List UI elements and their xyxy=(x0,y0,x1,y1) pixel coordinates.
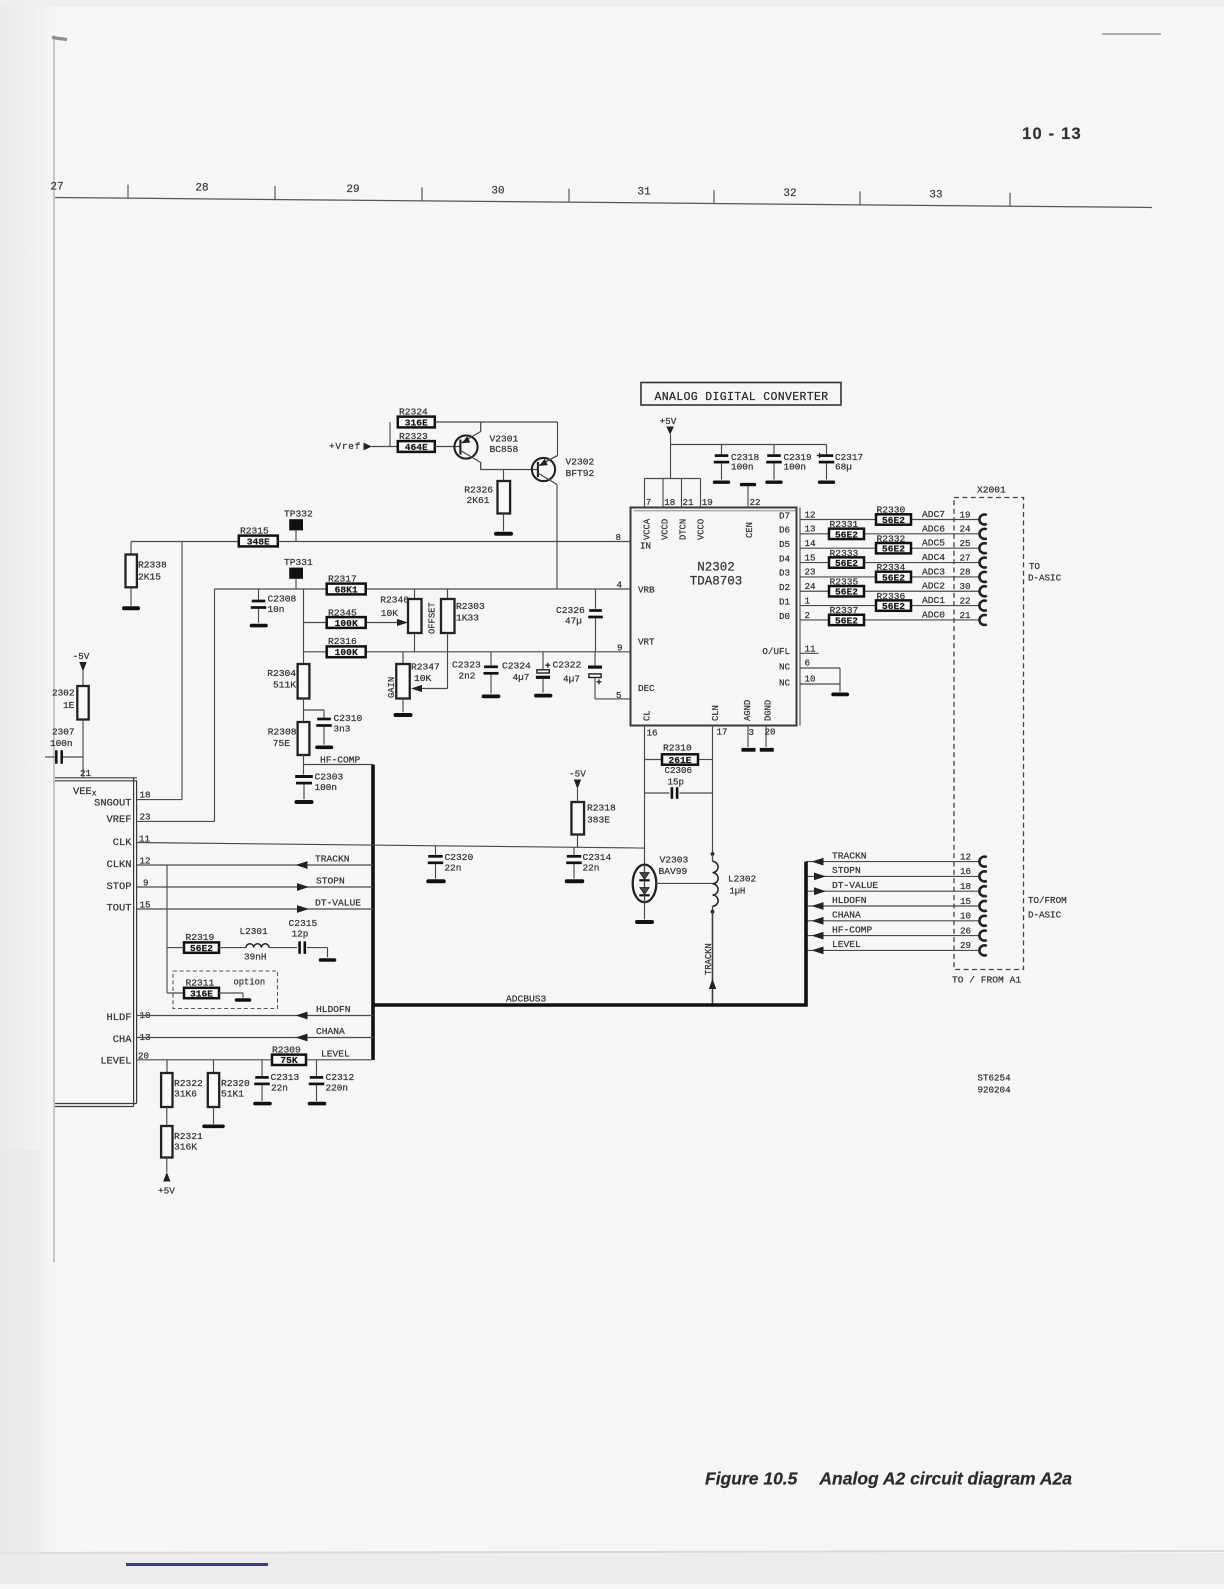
svg-text:TDA8703: TDA8703 xyxy=(690,575,743,589)
svg-text:R2303: R2303 xyxy=(456,601,485,612)
resistor R2321 316K xyxy=(161,1107,203,1158)
resistor R2332 56E2 xyxy=(876,533,911,554)
svg-text:VRT: VRT xyxy=(638,637,655,648)
resistor R2310 261E xyxy=(645,743,713,766)
ruler scale 27-33 xyxy=(50,181,1152,207)
svg-text:option: option xyxy=(234,978,266,988)
wire: HF-COMP node xyxy=(304,755,374,775)
svg-text:464E: 464E xyxy=(405,442,428,453)
svg-text:ADCBUS3: ADCBUS3 xyxy=(506,994,547,1005)
wire: data line D5 to connector xyxy=(800,547,980,549)
wire: TRACKN riser to bus xyxy=(712,912,714,1004)
svg-text:39nH: 39nH xyxy=(244,952,267,963)
svg-text:+Vref: +Vref xyxy=(329,441,361,452)
svg-text:CLN: CLN xyxy=(711,705,721,721)
connector contact DT-VALUE xyxy=(979,886,986,896)
svg-text:1K33: 1K33 xyxy=(456,613,479,624)
svg-text:18: 18 xyxy=(664,497,675,508)
svg-text:ADC0: ADC0 xyxy=(922,609,945,620)
svg-text:21: 21 xyxy=(960,610,972,621)
svg-text:15: 15 xyxy=(960,896,971,907)
svg-text:10: 10 xyxy=(805,674,816,685)
test point TP331 xyxy=(284,557,313,589)
svg-text:16: 16 xyxy=(647,728,658,739)
svg-text:D6: D6 xyxy=(779,525,790,536)
connector contact TRACKN xyxy=(979,857,986,867)
svg-text:7: 7 xyxy=(646,497,652,508)
svg-text:O/UFL: O/UFL xyxy=(762,646,790,657)
potentiometer R2346 10K (OFFSET) xyxy=(380,589,421,652)
wire: data line D4 to connector xyxy=(800,562,980,564)
svg-text:V2301: V2301 xyxy=(490,434,519,445)
svg-text:28: 28 xyxy=(960,567,971,578)
svg-text:ANALOG DIGITAL CONVERTER: ANALOG DIGITAL CONVERTER xyxy=(654,391,828,404)
svg-text:920204: 920204 xyxy=(978,1085,1012,1096)
test point TP332 xyxy=(284,509,313,542)
svg-text:15: 15 xyxy=(805,552,816,563)
wire: CHA pin13 xyxy=(137,1037,373,1039)
capacitor C2312 220n xyxy=(309,1060,355,1104)
svg-text:1E: 1E xyxy=(63,700,75,711)
svg-text:30: 30 xyxy=(491,185,504,197)
wire: V2301 collector to V2302 base xyxy=(504,469,538,471)
svg-text:ST6254: ST6254 xyxy=(978,1073,1012,1084)
svg-text:TP331: TP331 xyxy=(284,557,313,568)
resistor R2336 56E2 xyxy=(876,591,911,612)
resistor R2311 316E (option) xyxy=(167,978,250,1001)
wire: HF-COMP row to connector xyxy=(806,935,980,937)
svg-text:C2326: C2326 xyxy=(556,605,585,616)
svg-text:R2318: R2318 xyxy=(587,803,616,814)
svg-text:BC858: BC858 xyxy=(490,444,519,455)
svg-text:2K15: 2K15 xyxy=(138,572,161,583)
svg-text:20: 20 xyxy=(765,727,776,738)
svg-text:C2313: C2313 xyxy=(271,1072,300,1083)
label V2302 BFT92 xyxy=(566,457,595,480)
svg-text:29: 29 xyxy=(960,940,971,951)
svg-text:2n2: 2n2 xyxy=(459,671,476,682)
svg-text:10: 10 xyxy=(960,911,971,922)
ground (NC pins) xyxy=(833,668,847,694)
wire: VCC comb pins 7/18/21/19 xyxy=(645,479,701,508)
signal arrow LEVEL xyxy=(812,947,824,955)
capacitor C2322 4µ7 xyxy=(553,652,603,699)
svg-text:2302: 2302 xyxy=(52,688,75,699)
svg-text:D2: D2 xyxy=(779,582,790,593)
svg-text:3n3: 3n3 xyxy=(334,724,351,735)
svg-text:30: 30 xyxy=(960,581,971,592)
svg-text:18: 18 xyxy=(960,881,971,892)
svg-text:22: 22 xyxy=(750,497,761,508)
svg-text:CLKN: CLKN xyxy=(107,859,132,871)
svg-text:220n: 220n xyxy=(326,1083,349,1094)
wire: TRACKN row to connector xyxy=(806,861,980,863)
svg-text:56E2: 56E2 xyxy=(190,943,213,954)
svg-text:56E2: 56E2 xyxy=(882,544,905,555)
svg-text:13: 13 xyxy=(805,524,816,535)
note TO D-ASIC (upper) xyxy=(1028,561,1062,584)
svg-text:C2323: C2323 xyxy=(452,660,481,671)
svg-text:68µ: 68µ xyxy=(835,461,852,472)
resistor R2302 1E xyxy=(52,686,89,720)
svg-text:56E2: 56E2 xyxy=(835,587,858,598)
svg-text:BFT92: BFT92 xyxy=(566,468,595,479)
wire: IN net to pin 8 xyxy=(131,541,631,543)
connector contact ADC3 xyxy=(979,572,986,582)
capacitor C2323 2n2 xyxy=(452,652,499,697)
signal arrow DT-VALUE xyxy=(814,887,826,895)
capacitor C2324 4µ7 xyxy=(502,652,551,696)
resistor R2323 464E xyxy=(398,431,435,453)
svg-text:TO/FROM: TO/FROM xyxy=(1028,895,1067,906)
svg-text:C2306: C2306 xyxy=(665,765,693,776)
svg-text:4µ7: 4µ7 xyxy=(563,674,580,685)
power +5V (top) xyxy=(660,416,677,479)
signal arrow HLDOFN xyxy=(812,902,824,910)
svg-text:51K1: 51K1 xyxy=(221,1089,244,1100)
svg-text:VCCD: VCCD xyxy=(661,519,671,540)
arrow STOPN xyxy=(297,883,309,891)
svg-text:56E2: 56E2 xyxy=(882,572,905,583)
svg-text:9: 9 xyxy=(617,643,623,654)
capacitor C2317 xyxy=(819,445,863,483)
wire: +5V rail xyxy=(671,444,827,446)
svg-text:TRACKN: TRACKN xyxy=(832,850,867,861)
svg-text:R2308: R2308 xyxy=(268,727,297,738)
connector contact STOPN xyxy=(979,871,986,881)
svg-text:STOPN: STOPN xyxy=(316,876,345,887)
svg-text:100K: 100K xyxy=(335,647,358,658)
svg-text:29: 29 xyxy=(346,184,359,196)
wire: HLDOFN row to connector xyxy=(806,905,980,907)
svg-text:R2321: R2321 xyxy=(174,1131,203,1142)
inductor L2301 39nH xyxy=(219,926,269,963)
wire: R2324 output to emitter rail xyxy=(435,422,558,456)
svg-text:316E: 316E xyxy=(190,988,213,999)
pin 11 O/UFL stub xyxy=(800,652,819,654)
svg-text:CL: CL xyxy=(643,710,653,721)
resistor R2322 31K6 xyxy=(161,1060,203,1107)
svg-text:348E: 348E xyxy=(247,536,270,547)
arrow DT-VALUE xyxy=(297,905,309,913)
wire: data line D0 to connector xyxy=(800,619,980,621)
svg-text:HLDF: HLDF xyxy=(107,1012,132,1024)
svg-text:C2308: C2308 xyxy=(268,594,297,605)
svg-text:CHA: CHA xyxy=(113,1034,132,1046)
connector contact HLDOFN xyxy=(979,901,986,911)
signal arrow HF-COMP xyxy=(812,932,824,940)
signal arrow TRACKN xyxy=(812,858,824,866)
faint top-right mark xyxy=(1102,33,1161,35)
svg-text:31K6: 31K6 xyxy=(174,1089,197,1100)
svg-text:VREF: VREF xyxy=(107,814,132,826)
capacitor C2320 22n xyxy=(428,846,474,882)
svg-text:383E: 383E xyxy=(587,815,610,826)
svg-text:26: 26 xyxy=(960,925,971,936)
wire: Vref branch up xyxy=(389,422,391,447)
svg-text:TO: TO xyxy=(1029,561,1041,572)
svg-text:D-ASIC: D-ASIC xyxy=(1028,910,1062,921)
svg-text:NC: NC xyxy=(779,662,791,673)
svg-text:ADC6: ADC6 xyxy=(922,523,945,534)
svg-text:N2302: N2302 xyxy=(697,561,735,575)
svg-text:OFFSET: OFFSET xyxy=(428,602,438,634)
inductor L2302 1µH xyxy=(711,852,757,914)
svg-text:NC: NC xyxy=(779,678,791,689)
svg-text:LEVEL: LEVEL xyxy=(100,1056,131,1068)
svg-text:HF-COMP: HF-COMP xyxy=(320,755,361,766)
svg-text:3: 3 xyxy=(749,727,755,738)
svg-text:15p: 15p xyxy=(668,777,685,788)
svg-text:56E2: 56E2 xyxy=(882,515,905,526)
wire: diode midpoint to L2302 xyxy=(656,882,712,884)
svg-text:D1: D1 xyxy=(779,596,791,607)
capacitor C2319 xyxy=(766,445,811,483)
wire: VRT net to pin 9 xyxy=(304,651,631,653)
svg-text:24: 24 xyxy=(805,581,817,592)
svg-text:32: 32 xyxy=(783,188,796,200)
pin 6 NC stub xyxy=(800,667,840,669)
svg-text:27: 27 xyxy=(960,552,971,563)
svg-text:11: 11 xyxy=(805,644,817,655)
svg-text:DGND: DGND xyxy=(764,700,774,721)
resistor R2318 383E xyxy=(571,802,616,847)
svg-text:12: 12 xyxy=(960,851,971,862)
svg-text:100n: 100n xyxy=(315,782,338,793)
wire: TOUT pin15 xyxy=(137,908,373,910)
bus ADCBUS3 xyxy=(373,765,806,1061)
wire: DEC net to pin 5 xyxy=(595,698,631,700)
note TO/FROM D-ASIC (lower) xyxy=(1028,895,1067,921)
wire: LEVEL pin20 xyxy=(137,1059,373,1061)
svg-text:R2304: R2304 xyxy=(267,668,296,679)
capacitor C2313 22n xyxy=(254,1060,299,1104)
svg-text:DT-VALUE: DT-VALUE xyxy=(832,880,878,891)
svg-text:100n: 100n xyxy=(731,461,754,472)
svg-text:47µ: 47µ xyxy=(565,616,582,627)
connector contact LEVEL xyxy=(979,945,986,955)
resistor R2324 316E xyxy=(398,407,435,429)
svg-text:ADC7: ADC7 xyxy=(922,509,945,520)
svg-text:316E: 316E xyxy=(405,417,428,428)
power -5V (left) xyxy=(73,651,90,686)
svg-text:D5: D5 xyxy=(779,539,790,550)
svg-text:Figure 10.5Analog A2 circuit d: Figure 10.5Analog A2 circuit diagram A2a xyxy=(705,1469,1072,1489)
capacitor C2308 10n xyxy=(251,589,297,626)
svg-text:511K: 511K xyxy=(273,680,296,691)
resistor R2345 100K xyxy=(304,608,409,629)
net +Vref xyxy=(329,441,398,452)
connector X2001 dashed outline xyxy=(954,498,1024,970)
svg-text:1µH: 1µH xyxy=(730,887,746,897)
svg-text:1: 1 xyxy=(805,595,811,606)
svg-text:LEVEL: LEVEL xyxy=(321,1049,350,1060)
svg-text:31: 31 xyxy=(637,187,651,199)
wire: CLN pin17 down xyxy=(712,726,714,855)
svg-text:DTCN: DTCN xyxy=(679,519,689,540)
svg-text:ADC2: ADC2 xyxy=(922,581,945,592)
wire: TP331 node down xyxy=(303,589,305,664)
polarity + of C2324 xyxy=(545,664,550,666)
wire: VRB net to pin 4 xyxy=(215,588,631,590)
svg-text:+5V: +5V xyxy=(660,416,677,427)
wire: CLKN pin12 xyxy=(137,864,373,866)
svg-text:5: 5 xyxy=(616,690,622,701)
wire: VREF pin23 xyxy=(137,589,215,821)
svg-text:TP332: TP332 xyxy=(284,509,313,520)
svg-text:10 - 13: 10 - 13 xyxy=(1022,125,1082,143)
polarity + of C2317 xyxy=(817,455,822,457)
svg-text:100n: 100n xyxy=(784,461,807,472)
svg-text:TRACKN: TRACKN xyxy=(704,943,714,975)
svg-text:100K: 100K xyxy=(335,618,358,629)
svg-text:68K1: 68K1 xyxy=(335,584,358,595)
resistor R2330 56E2 xyxy=(876,505,911,526)
svg-text:-5V: -5V xyxy=(569,769,586,780)
resistor R2319 56E2 xyxy=(167,932,219,954)
resistor R2308 75E xyxy=(268,722,310,755)
wire: R2323 to V2301 base xyxy=(435,446,461,448)
potentiometer R2347 10K (GAIN) xyxy=(396,652,440,699)
svg-text:12: 12 xyxy=(805,509,816,520)
wire: SNGOUT pin18 xyxy=(137,542,182,800)
svg-text:HF-COMP: HF-COMP xyxy=(832,924,873,935)
svg-text:D4: D4 xyxy=(779,553,791,564)
svg-text:AGND: AGND xyxy=(743,700,753,721)
svg-text:R2346: R2346 xyxy=(380,595,409,606)
svg-text:75E: 75E xyxy=(273,738,291,749)
svg-text:100n: 100n xyxy=(50,738,73,749)
svg-text:19: 19 xyxy=(702,497,713,508)
svg-text:DT-VALUE: DT-VALUE xyxy=(315,898,361,909)
svg-text:22n: 22n xyxy=(445,863,462,874)
svg-text:R2320: R2320 xyxy=(221,1078,250,1089)
note ST6254 / 920204 xyxy=(978,1073,1012,1096)
svg-text:10K: 10K xyxy=(414,673,432,684)
wire: CL pin16 down xyxy=(644,726,646,865)
svg-text:2K61: 2K61 xyxy=(466,495,489,506)
svg-text:17: 17 xyxy=(717,727,728,738)
svg-text:18: 18 xyxy=(140,790,151,801)
ground (R2347) xyxy=(396,699,411,716)
svg-text:R2347: R2347 xyxy=(411,662,440,673)
wire: CLK pin11 xyxy=(137,843,645,849)
wire: DT-VALUE row to connector xyxy=(806,890,980,892)
resistor R2304 511K xyxy=(267,664,309,699)
connector contact ADC7 xyxy=(979,515,986,525)
svg-text:HLDOFN: HLDOFN xyxy=(316,1004,351,1015)
power -5V (R2318) xyxy=(569,769,586,803)
A-ASIC block (left, partially cut) xyxy=(55,778,137,1107)
transistor Q1 V2301 BC858 xyxy=(454,422,503,470)
capacitor C2318 xyxy=(714,445,760,483)
svg-text:TRACKN: TRACKN xyxy=(315,854,350,865)
ground (R2326) xyxy=(496,514,511,534)
svg-text:-5V: -5V xyxy=(73,651,90,662)
label V2301 BC858 xyxy=(490,434,519,456)
wire: STOPN row to connector xyxy=(806,875,980,877)
svg-text:CHANA: CHANA xyxy=(316,1026,345,1037)
svg-text:21: 21 xyxy=(683,497,695,508)
resistor R2326 2K61 xyxy=(464,470,510,514)
svg-text:D0: D0 xyxy=(779,611,790,622)
svg-text:V2302: V2302 xyxy=(566,457,595,468)
wire: R2302 to pin 21 xyxy=(82,720,84,778)
resistor R2333 56E2 xyxy=(829,548,864,569)
ground (V2303) xyxy=(637,902,652,922)
svg-text:L2301: L2301 xyxy=(240,926,269,937)
svg-text:R2338: R2338 xyxy=(138,560,167,571)
connector contact ADC0 xyxy=(980,615,987,625)
wire: data line D7 to connector xyxy=(800,519,980,521)
svg-text:LEVEL: LEVEL xyxy=(832,939,861,950)
svg-text:14: 14 xyxy=(805,538,817,549)
svg-text:CLK: CLK xyxy=(113,837,132,849)
arrow HLDOFN xyxy=(296,1012,308,1020)
wire: R2303 to GAIN wiper xyxy=(411,633,448,692)
svg-text:VCCA: VCCA xyxy=(643,518,653,540)
svg-text:C2303: C2303 xyxy=(315,772,344,783)
svg-text:ADC3: ADC3 xyxy=(922,566,945,577)
resistor R2320 51K1 xyxy=(204,1060,250,1127)
svg-text:22n: 22n xyxy=(583,863,600,874)
svg-text:C2315: C2315 xyxy=(289,918,318,929)
resistor R2331 56E2 xyxy=(829,519,864,540)
arrow CHANA xyxy=(296,1034,308,1042)
resistor R2317 68K1 xyxy=(327,574,366,596)
capacitor C2310 3n3 xyxy=(304,710,363,747)
svg-text:28: 28 xyxy=(195,183,208,195)
svg-text:C2310: C2310 xyxy=(334,713,363,724)
svg-text:X2001: X2001 xyxy=(977,485,1006,496)
connector contact ADC6 xyxy=(980,529,987,539)
svg-text:22n: 22n xyxy=(271,1083,288,1094)
svg-text:R2322: R2322 xyxy=(174,1078,203,1089)
svg-text:56E2: 56E2 xyxy=(835,529,858,540)
arrow TRACKN (left row) xyxy=(296,861,308,869)
connector contact ADC4 xyxy=(980,558,987,568)
resistor R2315 348E xyxy=(239,526,278,548)
svg-text:GAIN: GAIN xyxy=(387,677,397,698)
svg-text:CEN: CEN xyxy=(745,522,755,538)
capacitor C2315 12p xyxy=(269,918,334,960)
svg-text:21: 21 xyxy=(80,768,92,779)
wire: CLKN drop to R2319/R2311 xyxy=(166,865,168,993)
svg-text:2: 2 xyxy=(805,610,811,621)
wire: R2304 to R2308 xyxy=(303,699,305,723)
wire: HLDF pin10 xyxy=(137,1015,373,1017)
resistor R2309 75K xyxy=(272,1045,306,1067)
svg-text:TOUT: TOUT xyxy=(107,903,132,915)
svg-text:ADC5: ADC5 xyxy=(922,538,945,549)
resistor R2338 2K15 xyxy=(126,542,168,588)
svg-text:C2324: C2324 xyxy=(502,661,531,672)
signal arrow STOPN xyxy=(814,873,826,881)
svg-text:56E2: 56E2 xyxy=(835,615,858,626)
resistor R2335 56E2 xyxy=(829,576,864,597)
resistor R2334 56E2 xyxy=(876,562,911,583)
svg-text:D-ASIC: D-ASIC xyxy=(1028,573,1062,584)
resistor R2337 56E2 xyxy=(829,605,864,626)
svg-text:ADC1: ADC1 xyxy=(922,595,945,606)
svg-text:75K: 75K xyxy=(280,1055,298,1066)
ground AGND pin 3 xyxy=(742,726,756,750)
svg-text:R2326: R2326 xyxy=(464,485,493,496)
svg-text:2307: 2307 xyxy=(52,727,75,738)
ADC title box xyxy=(641,383,841,406)
svg-text:ADC4: ADC4 xyxy=(922,552,945,563)
svg-text:STOP: STOP xyxy=(107,881,132,893)
